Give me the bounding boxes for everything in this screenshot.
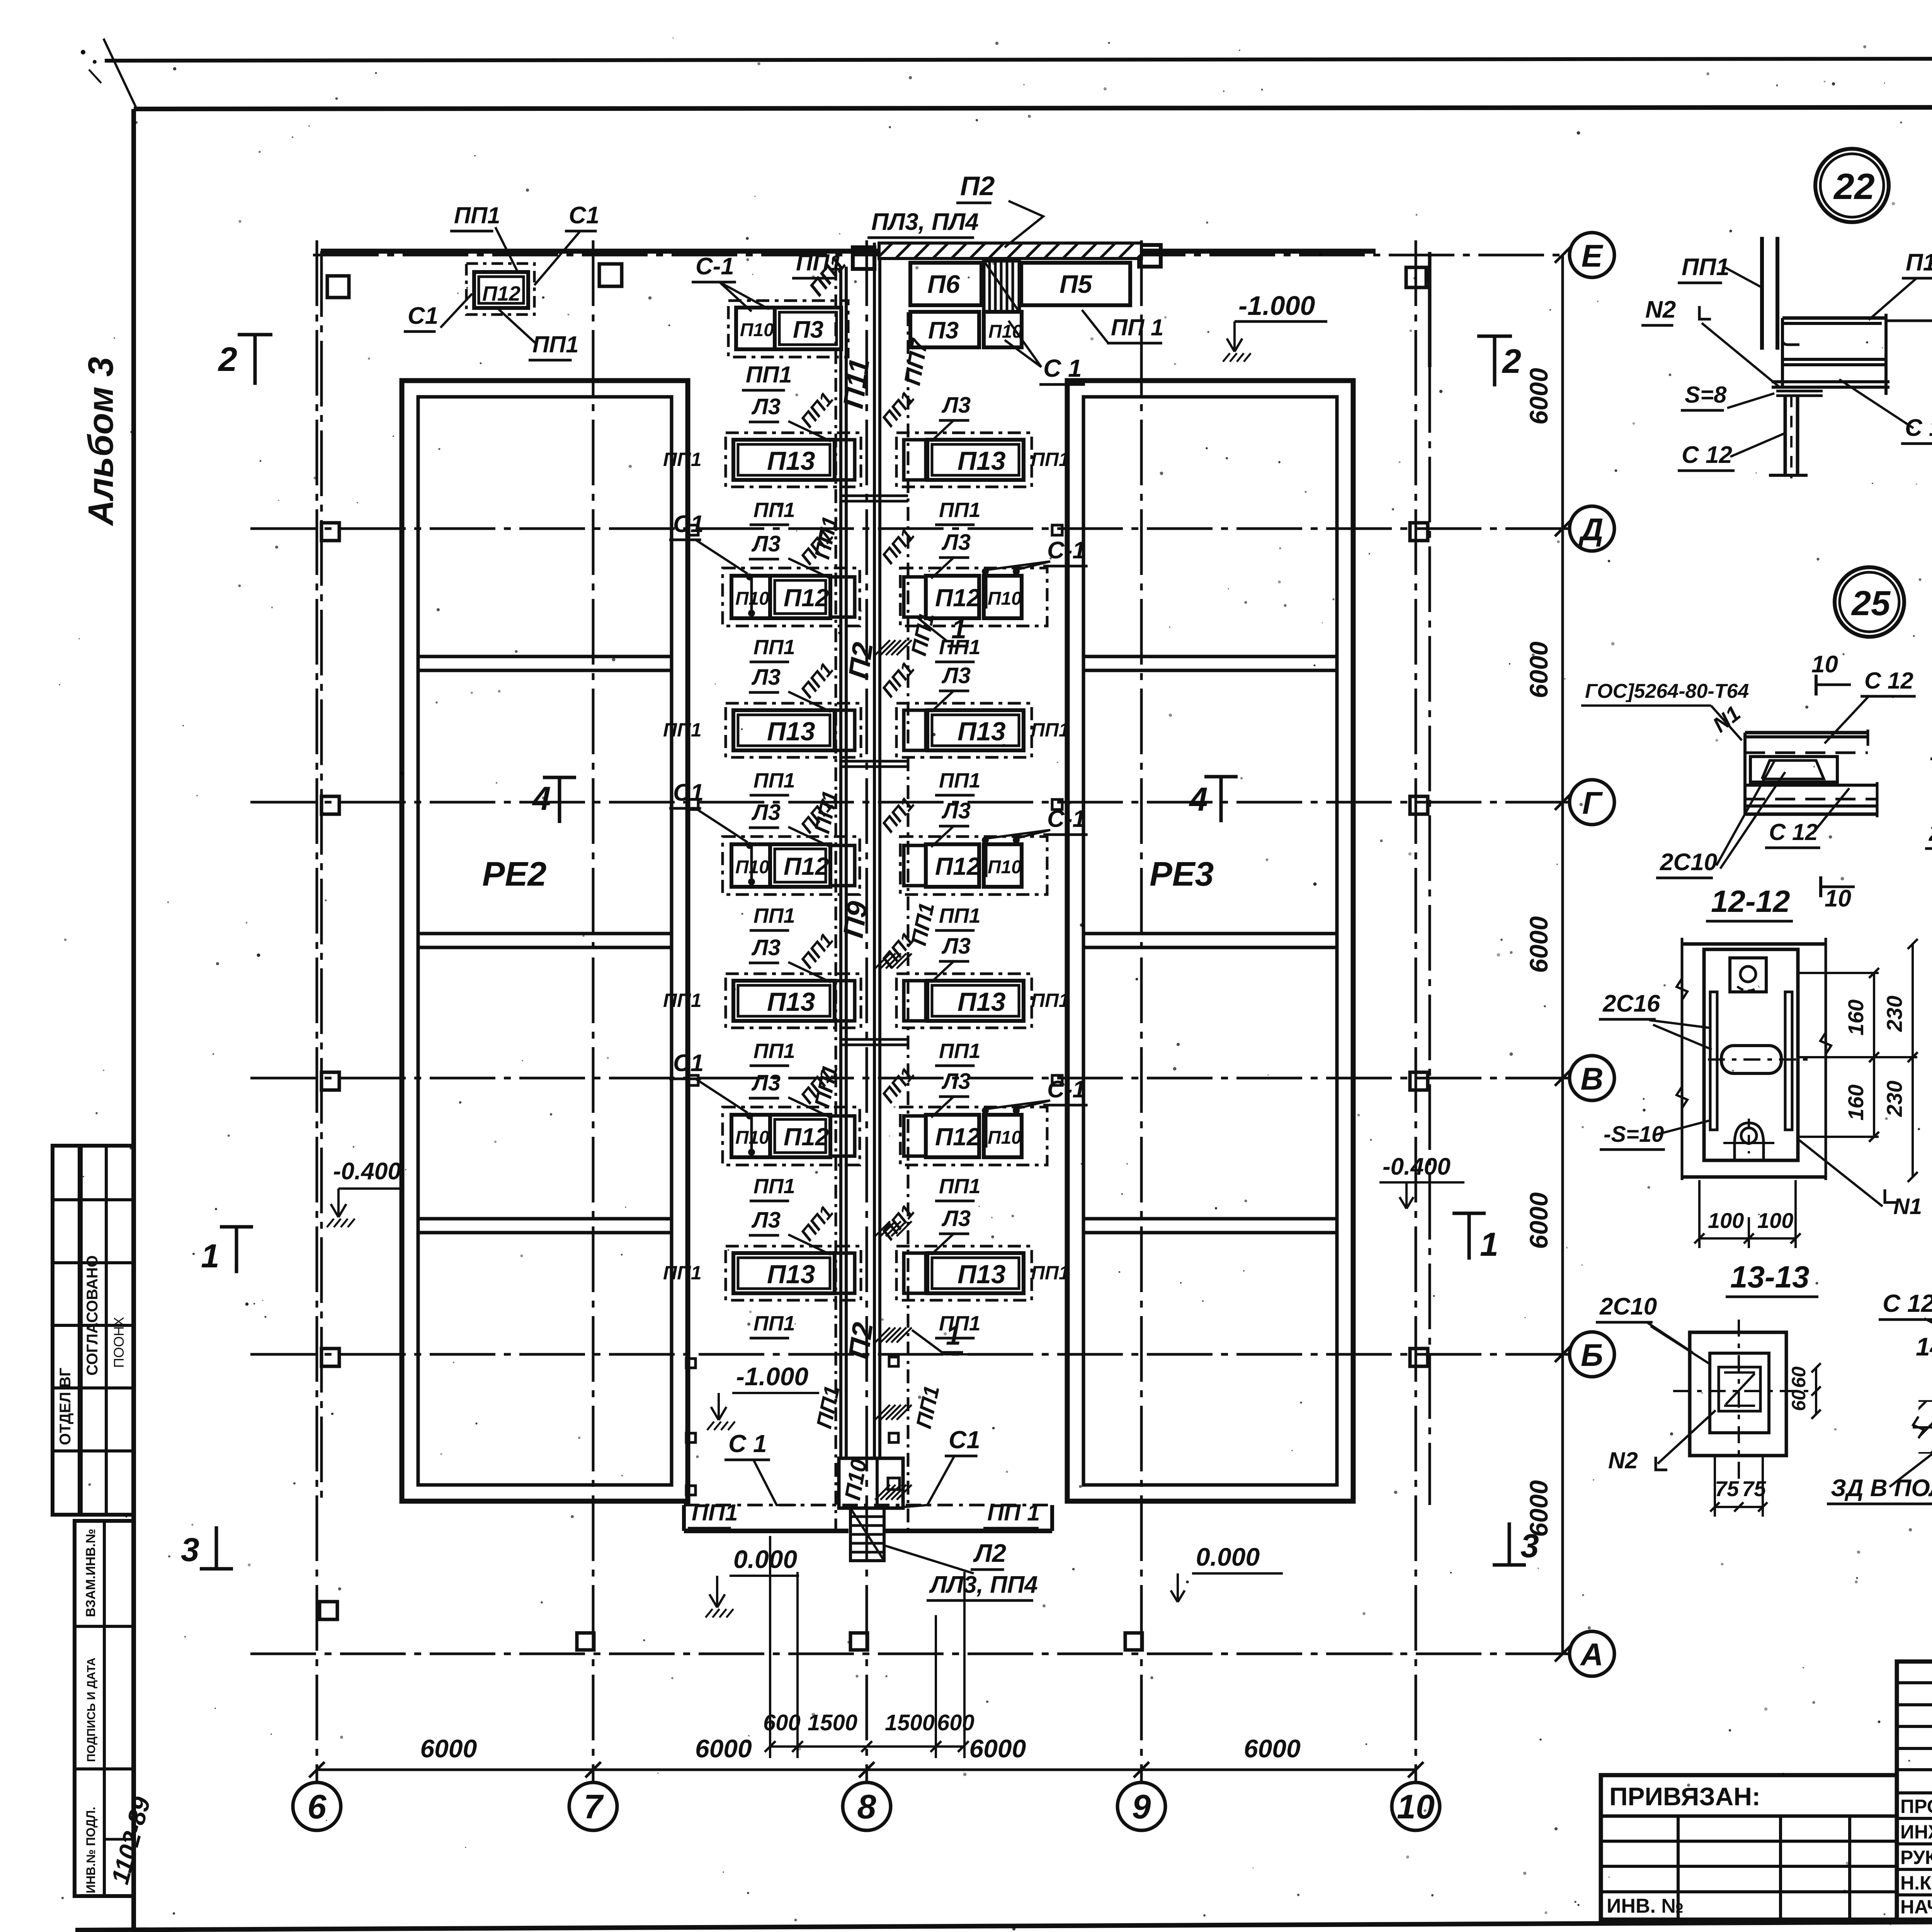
svg-text:1: 1 [951, 614, 966, 644]
svg-text:Л3: Л3 [941, 530, 971, 555]
svg-text:7: 7 [584, 1787, 604, 1826]
svg-text:12-12: 12-12 [1711, 884, 1790, 918]
svg-text:13-13: 13-13 [1730, 1260, 1810, 1294]
svg-text:6000: 6000 [695, 1734, 752, 1763]
svg-text:ПООНХ: ПООНХ [111, 1317, 127, 1368]
svg-text:П13: П13 [767, 987, 815, 1017]
svg-text:Л3: Л3 [941, 1069, 971, 1094]
svg-text:2: 2 [218, 340, 237, 378]
svg-text:1500: 1500 [808, 1710, 857, 1735]
svg-text:ПП1: ПП1 [939, 498, 981, 522]
svg-text:Л3: Л3 [751, 394, 781, 419]
svg-text:100: 100 [1757, 1208, 1793, 1233]
svg-text:N2: N2 [1645, 296, 1676, 323]
svg-text:ПП1: ПП1 [532, 332, 579, 357]
svg-text:П12: П12 [784, 584, 829, 612]
svg-text:1: 1 [1480, 1226, 1498, 1263]
svg-text:С1: С1 [673, 1050, 704, 1077]
svg-text:3: 3 [1520, 1527, 1539, 1565]
svg-text:6000: 6000 [1524, 1192, 1553, 1249]
svg-text:6000: 6000 [1524, 641, 1553, 698]
svg-text:С 1: С 1 [728, 1430, 767, 1458]
svg-text:П3: П3 [793, 316, 823, 343]
svg-text:10: 10 [1397, 1787, 1435, 1826]
svg-text:Л3: Л3 [941, 663, 971, 688]
svg-text:1: 1 [201, 1238, 219, 1275]
svg-text:П12: П12 [935, 584, 980, 612]
svg-text:ЗД В ПОЛУ: ЗД В ПОЛУ [1831, 1475, 1932, 1502]
svg-text:4: 4 [532, 780, 551, 817]
svg-text:П2: П2 [842, 640, 879, 681]
svg-text:60: 60 [1788, 1366, 1810, 1388]
svg-text:600: 600 [763, 1710, 801, 1735]
svg-text:П2: П2 [960, 171, 995, 201]
svg-text:ПРОВЕР.: ПРОВЕР. [1900, 1796, 1932, 1817]
svg-text:С 12: С 12 [1864, 668, 1913, 694]
svg-text:6000: 6000 [420, 1734, 477, 1763]
svg-text:С 12: С 12 [1682, 442, 1732, 468]
svg-text:Н.КОНТР.: Н.КОНТР. [1900, 1872, 1932, 1894]
svg-text:ПП1: ПП1 [1682, 254, 1730, 281]
svg-text:ПП1: ПП1 [753, 769, 795, 792]
svg-text:Л3: Л3 [751, 531, 781, 556]
svg-text:S=8: S=8 [1685, 382, 1727, 408]
svg-text:ПП1: ПП1 [753, 1039, 795, 1063]
svg-text:ПП1: ПП1 [753, 1175, 795, 1198]
svg-text:ПП1: ПП1 [454, 202, 500, 228]
svg-text:П13: П13 [767, 717, 815, 746]
svg-text:6000: 6000 [1244, 1734, 1301, 1763]
svg-text:ПП1: ПП1 [663, 449, 702, 470]
svg-text:-0.400: -0.400 [333, 1158, 401, 1185]
svg-text:П10: П10 [988, 588, 1022, 609]
svg-text:П13: П13 [957, 446, 1006, 476]
svg-text:0.000: 0.000 [733, 1545, 797, 1573]
svg-text:Е: Е [1582, 238, 1604, 274]
svg-text:П12: П12 [482, 282, 520, 305]
svg-text:100: 100 [1708, 1208, 1744, 1233]
svg-text:ПП1: ПП1 [663, 1262, 702, 1284]
svg-text:2С16: 2С16 [1602, 990, 1660, 1017]
svg-text:С1: С1 [673, 779, 704, 806]
svg-text:РЕ2: РЕ2 [482, 855, 546, 893]
svg-text:Л2: Л2 [973, 1539, 1006, 1567]
svg-text:ПП1: ПП1 [692, 1500, 738, 1526]
svg-text:П13: П13 [767, 446, 815, 476]
svg-text:ПП1: ПП1 [939, 1175, 981, 1198]
svg-text:0.000: 0.000 [1196, 1543, 1260, 1571]
svg-text:ПРИВЯЗАН:: ПРИВЯЗАН: [1609, 1782, 1760, 1811]
svg-text:П12: П12 [935, 852, 980, 880]
svg-text:А: А [1580, 1637, 1603, 1672]
svg-text:П13: П13 [767, 1260, 815, 1289]
svg-text:П13: П13 [957, 717, 1006, 746]
svg-text:ИНЖЕН.: ИНЖЕН. [1900, 1821, 1932, 1843]
svg-text:2: 2 [1502, 342, 1521, 380]
svg-text:П12: П12 [935, 1123, 980, 1151]
svg-text:ЛЛ3, ПП4: ЛЛ3, ПП4 [929, 1571, 1038, 1598]
svg-text:Л3: Л3 [751, 665, 781, 690]
svg-text:60: 60 [1788, 1389, 1810, 1411]
svg-text:75: 75 [1742, 1476, 1766, 1501]
svg-text:ПП1: ПП1 [753, 636, 795, 659]
svg-text:П13: П13 [957, 1260, 1006, 1289]
svg-text:С1: С1 [949, 1426, 980, 1454]
svg-text:П10: П10 [988, 1128, 1022, 1148]
svg-text:ПП1: ПП1 [753, 498, 795, 522]
svg-text:Л3: Л3 [941, 798, 971, 823]
svg-text:В: В [1580, 1061, 1603, 1097]
svg-text:8: 8 [857, 1787, 876, 1826]
svg-text:ПП1: ПП1 [663, 990, 702, 1011]
svg-text:С 12: С 12 [1883, 1289, 1932, 1317]
svg-text:ПП1: ПП1 [939, 904, 981, 927]
svg-text:П9: П9 [837, 899, 874, 940]
svg-text:3: 3 [181, 1531, 199, 1568]
svg-text:Л3: Л3 [941, 934, 971, 959]
svg-text:4: 4 [1189, 781, 1208, 818]
svg-text:Д: Д [1578, 512, 1603, 547]
svg-text:П12: П12 [784, 852, 829, 880]
svg-text:НАЧ.ОТД: НАЧ.ОТД [1900, 1896, 1932, 1918]
svg-text:С 12: С 12 [1905, 415, 1932, 441]
svg-text:ПП1: ПП1 [1031, 1262, 1070, 1284]
svg-text:Б: Б [1581, 1338, 1603, 1373]
svg-text:С 1: С 1 [1043, 354, 1082, 382]
svg-text:ВЗАМ.ИНВ.№: ВЗАМ.ИНВ.№ [83, 1529, 98, 1617]
svg-text:-1.000: -1.000 [736, 1362, 808, 1391]
svg-text:Г: Г [1582, 786, 1603, 821]
svg-text:С1: С1 [673, 511, 704, 537]
svg-text:600: 600 [937, 1710, 975, 1735]
svg-text:2С10: 2С10 [1929, 820, 1932, 846]
svg-text:СОГЛАСОВАНО: СОГЛАСОВАНО [84, 1255, 101, 1376]
svg-text:П10: П10 [1906, 249, 1932, 276]
svg-text:75: 75 [1715, 1476, 1739, 1501]
svg-text:ПЛ3, ПЛ4: ПЛ3, ПЛ4 [871, 209, 979, 235]
svg-text:РУК.ГР.: РУК.ГР. [1900, 1847, 1932, 1868]
svg-text:С 12: С 12 [1769, 819, 1818, 845]
svg-text:14: 14 [1916, 1332, 1932, 1361]
svg-text:160: 160 [1844, 1000, 1868, 1036]
svg-text:Л3: Л3 [751, 800, 781, 825]
svg-text:ПП1: ПП1 [939, 769, 981, 792]
svg-text:2С10: 2С10 [1660, 849, 1717, 876]
svg-text:ПП1: ПП1 [753, 1312, 795, 1335]
svg-text:ИНВ.№ ПОДЛ.: ИНВ.№ ПОДЛ. [84, 1807, 98, 1893]
svg-text:С-1: С-1 [696, 253, 734, 280]
svg-text:ПП1: ПП1 [1031, 719, 1070, 741]
svg-text:230: 230 [1882, 996, 1906, 1032]
svg-text:6000: 6000 [969, 1734, 1026, 1763]
svg-text:П6: П6 [927, 270, 960, 298]
svg-text:Альбом 3: Альбом 3 [81, 357, 121, 526]
svg-text:N1: N1 [1893, 1194, 1922, 1219]
svg-text:ПОДПИСЬ И ДАТА: ПОДПИСЬ И ДАТА [85, 1658, 98, 1762]
svg-text:-1.000: -1.000 [1238, 291, 1315, 321]
svg-text:ПП1: ПП1 [663, 719, 702, 741]
svg-text:230: 230 [1882, 1081, 1906, 1117]
svg-text:Л3: Л3 [751, 1070, 781, 1095]
svg-text:10: 10 [1811, 651, 1838, 678]
svg-text:9: 9 [1132, 1787, 1151, 1826]
svg-text:1: 1 [946, 1320, 961, 1350]
svg-text:С-1: С-1 [1047, 537, 1086, 564]
svg-text:Л3: Л3 [751, 1207, 781, 1233]
svg-text:10: 10 [1825, 885, 1851, 912]
svg-text:С1: С1 [408, 303, 438, 329]
svg-text:П10: П10 [988, 857, 1022, 878]
svg-text:С-1: С-1 [1047, 806, 1086, 832]
svg-text:ПП1: ПП1 [1031, 990, 1070, 1011]
svg-text:П13: П13 [957, 987, 1006, 1017]
svg-text:2С10: 2С10 [1599, 1293, 1657, 1320]
svg-text:ГОС]5264-80-Т64: ГОС]5264-80-Т64 [1585, 680, 1749, 702]
svg-text:1500: 1500 [885, 1710, 935, 1735]
svg-text:П3: П3 [928, 317, 959, 344]
svg-text:ОТДЕЛ ВГ: ОТДЕЛ ВГ [57, 1368, 74, 1445]
svg-text:Л3: Л3 [941, 393, 971, 418]
svg-text:П10: П10 [740, 320, 774, 340]
svg-text:ПП1: ПП1 [939, 1039, 981, 1063]
svg-text:РЕ3: РЕ3 [1150, 855, 1214, 893]
svg-text:ПП1: ПП1 [1031, 449, 1070, 470]
svg-text:Л3: Л3 [751, 935, 781, 960]
svg-text:С-1: С-1 [1047, 1076, 1086, 1103]
svg-text:С1: С1 [569, 202, 599, 229]
svg-text:22: 22 [1833, 166, 1875, 207]
svg-text:ПП 1: ПП 1 [987, 1500, 1040, 1526]
svg-text:ИНВ. №: ИНВ. № [1607, 1895, 1684, 1917]
svg-text:П5: П5 [1060, 270, 1092, 298]
svg-text:-0.400: -0.400 [1383, 1153, 1451, 1180]
svg-text:ПП1: ПП1 [753, 904, 795, 927]
svg-text:6: 6 [308, 1787, 327, 1826]
svg-text:N2: N2 [1608, 1447, 1638, 1473]
svg-text:6000: 6000 [1524, 368, 1553, 425]
svg-text:Л3: Л3 [941, 1206, 971, 1231]
svg-text:ПП 1: ПП 1 [1111, 315, 1163, 340]
svg-text:25: 25 [1851, 584, 1891, 623]
svg-text:П2: П2 [842, 1320, 879, 1361]
svg-text:160: 160 [1844, 1085, 1868, 1121]
svg-text:П12: П12 [784, 1123, 829, 1151]
svg-text:ПП1: ПП1 [746, 362, 792, 388]
svg-text:6000: 6000 [1524, 916, 1553, 973]
